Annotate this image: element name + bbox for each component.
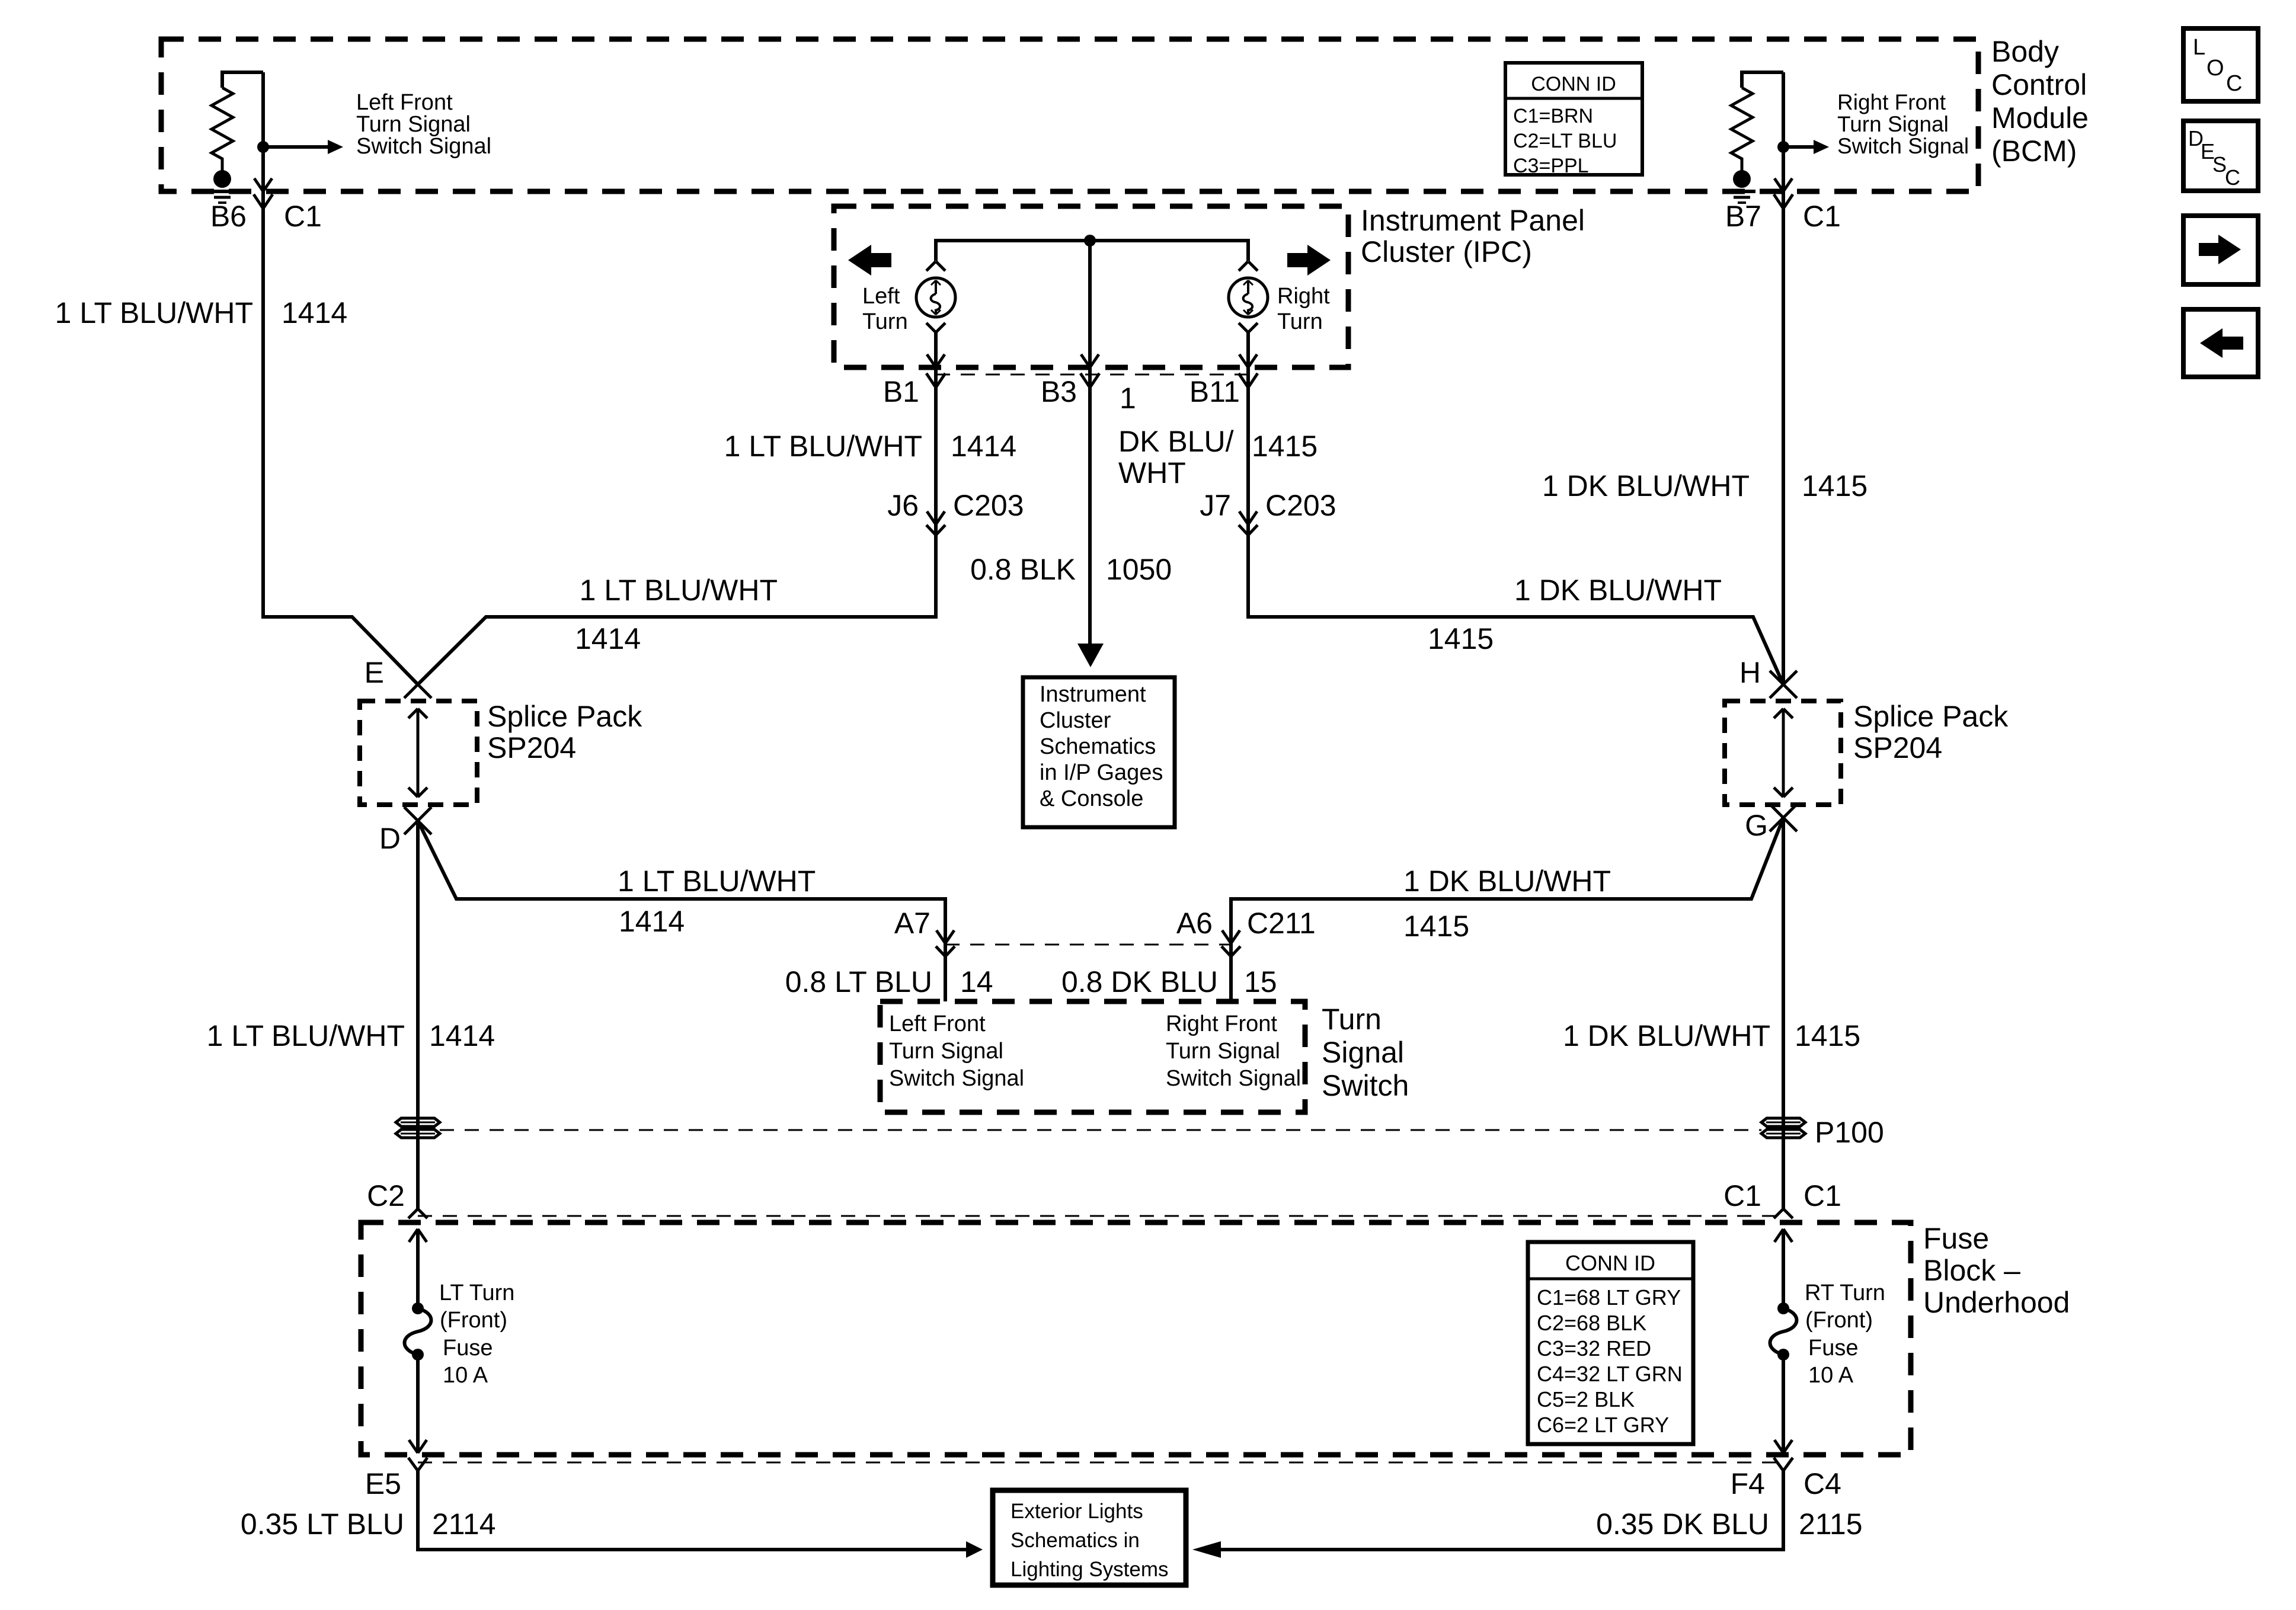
svg-text:14: 14 — [960, 965, 993, 998]
wire B3 to instrument cluster schematic (0.8 BLK 1050) — [1077, 241, 1104, 667]
svg-text:10 A: 10 A — [443, 1363, 488, 1388]
fuse block label — [1923, 1222, 2070, 1319]
svg-text:Right Front: Right Front — [1837, 90, 1946, 114]
fuse block connector table CONN ID — [1528, 1242, 1693, 1444]
label E — [364, 656, 384, 689]
connector C211 dashed line — [945, 944, 1231, 946]
svg-text:C211: C211 — [1247, 907, 1316, 940]
svg-text:2115: 2115 — [1799, 1507, 1863, 1541]
svg-text:in I/P Gages: in I/P Gages — [1040, 760, 1163, 785]
svg-text:G: G — [1745, 809, 1768, 842]
svg-text:1 DK BLU/WHT: 1 DK BLU/WHT — [1514, 574, 1722, 607]
svg-text:1 DK BLU/WHT: 1 DK BLU/WHT — [1563, 1019, 1770, 1052]
label 1 LT BLU/WHT 1414 at B1 — [724, 430, 1017, 463]
node junction right BCM — [1777, 141, 1789, 153]
svg-text:(BCM): (BCM) — [1991, 135, 2077, 168]
wire IPC top rail — [936, 241, 1248, 261]
svg-text:15: 15 — [1244, 965, 1277, 998]
fuse LT labels — [439, 1281, 514, 1388]
label 1 DK BLU/WHT 1415 run — [1428, 574, 1722, 655]
svg-text:Underhood: Underhood — [1923, 1286, 2070, 1319]
label E5 — [365, 1467, 401, 1500]
legend DESC icon — [2183, 121, 2258, 191]
svg-text:0.8 LT BLU: 0.8 LT BLU — [785, 965, 932, 998]
wire B11 to H via J7 — [1248, 332, 1783, 684]
svg-text:CONN ID: CONN ID — [1565, 1251, 1655, 1275]
pin labels B1 B3 B11 — [883, 375, 1240, 415]
label 1 LT BLU/WHT 1414 left wire — [55, 296, 348, 329]
node G splice — [1770, 804, 1797, 831]
label C2 — [367, 1179, 405, 1212]
svg-text:B1: B1 — [883, 375, 919, 408]
pin B11 connector — [1239, 354, 1258, 388]
svg-text:C1=BRN: C1=BRN — [1513, 105, 1593, 127]
label splice pack SP204 left — [487, 700, 642, 764]
svg-text:Switch Signal: Switch Signal — [1837, 134, 1969, 158]
label right front turn signal switch signal — [1837, 90, 1969, 158]
svg-text:2114: 2114 — [432, 1507, 496, 1541]
ground right (BCM) — [1728, 170, 1755, 203]
svg-text:C1: C1 — [1803, 1179, 1841, 1212]
fuse block connector dashed line bottom — [418, 1462, 1783, 1464]
svg-text:0.8 BLK: 0.8 BLK — [970, 553, 1076, 586]
turn signal switch box — [880, 1001, 1305, 1112]
pin B6 connector — [254, 178, 273, 209]
svg-text:Exterior Lights: Exterior Lights — [1011, 1500, 1143, 1523]
label 0.8 BLK 1050 — [970, 553, 1172, 586]
svg-text:C: C — [2226, 71, 2242, 96]
connector A7 C211 — [936, 930, 955, 956]
labels A7 A6 C211 — [894, 907, 1316, 940]
svg-text:Fuse: Fuse — [443, 1336, 493, 1361]
BCM label — [1991, 35, 2089, 168]
svg-text:C2=68 BLK: C2=68 BLK — [1537, 1311, 1646, 1335]
svg-text:LT Turn: LT Turn — [439, 1281, 514, 1305]
wire G to fuse block C1 (1 DK BLU/WHT 1415) — [1782, 818, 1785, 1209]
pin B3 connector — [1080, 354, 1099, 388]
svg-text:Instrument: Instrument — [1040, 682, 1146, 707]
svg-text:Left: Left — [862, 284, 900, 309]
label left turn — [862, 284, 908, 334]
label 1415 below — [1403, 910, 1469, 943]
svg-text:B6: B6 — [210, 200, 247, 233]
label D — [379, 822, 401, 855]
pin C1 C1 connector right — [1774, 1209, 1793, 1218]
wire B6 to E (1 LT BLU/WHT 1414) — [263, 191, 418, 684]
label 1415 at B11 — [1252, 430, 1318, 463]
svg-text:1 DK BLU/WHT: 1 DK BLU/WHT — [1542, 469, 1750, 502]
splice pack left arrow — [408, 709, 427, 797]
splice pack right arrow — [1774, 709, 1793, 797]
svg-text:E: E — [364, 656, 384, 689]
svg-text:C1: C1 — [1723, 1179, 1761, 1212]
pin F4 C4 connector — [1774, 1458, 1793, 1471]
svg-text:Switch Signal: Switch Signal — [356, 134, 491, 159]
label 1 DK BLU/WHT 1415 right wire — [1542, 469, 1868, 502]
svg-text:1414: 1414 — [575, 622, 641, 655]
svg-text:1 DK BLU/WHT: 1 DK BLU/WHT — [1403, 865, 1611, 898]
svg-text:Lighting Systems: Lighting Systems — [1011, 1558, 1169, 1581]
connector A6 C211 — [1221, 930, 1240, 956]
svg-text:F4: F4 — [1731, 1467, 1765, 1500]
labels 0.8 DK BLU 15 — [1061, 965, 1277, 998]
signal arrow right — [1783, 140, 1829, 154]
svg-text:L: L — [2193, 35, 2205, 60]
svg-text:B3: B3 — [1041, 375, 1077, 408]
svg-text:Left Front: Left Front — [356, 90, 453, 115]
splice pack SP204 right box — [1725, 701, 1841, 805]
left turn indicator arrow icon — [848, 245, 891, 276]
svg-text:B11: B11 — [1189, 375, 1240, 408]
svg-text:D: D — [379, 822, 401, 855]
svg-text:1414: 1414 — [429, 1019, 495, 1052]
connector J7 C203 — [1239, 511, 1258, 535]
node junction left BCM — [257, 141, 269, 153]
grommet P100 left — [396, 1118, 440, 1138]
svg-text:H: H — [1739, 656, 1761, 689]
label 1 DK BLU/WHT above — [1403, 865, 1611, 898]
svg-text:Schematics: Schematics — [1040, 734, 1156, 759]
svg-text:Module: Module — [1991, 101, 2089, 135]
svg-text:1: 1 — [1120, 382, 1136, 415]
svg-text:& Console: & Console — [1040, 786, 1143, 811]
label P100 — [1815, 1116, 1884, 1149]
svg-text:Turn Signal: Turn Signal — [1166, 1039, 1280, 1064]
right turn indicator arrow icon — [1287, 245, 1331, 276]
svg-text:A6: A6 — [1176, 907, 1213, 940]
svg-text:0.35 LT BLU: 0.35 LT BLU — [241, 1507, 404, 1541]
pin B6 C1 labels — [210, 200, 322, 233]
svg-text:C203: C203 — [1265, 489, 1336, 522]
fuse RT Turn (Front) 10A — [1770, 1229, 1797, 1453]
svg-text:Switch Signal: Switch Signal — [1166, 1066, 1301, 1091]
wire D to fuse block C2 (1 LT BLU/WHT 1414) — [416, 821, 420, 1209]
fuse LT Turn (Front) 10A — [405, 1229, 431, 1453]
svg-text:C4=32 LT GRN: C4=32 LT GRN — [1537, 1362, 1683, 1386]
BCM connector table CONN ID — [1505, 63, 1642, 177]
svg-text:1 LT BLU/WHT: 1 LT BLU/WHT — [618, 865, 816, 898]
svg-text:C1: C1 — [284, 200, 322, 233]
svg-text:1414: 1414 — [619, 905, 685, 938]
labels C1 C1 — [1723, 1179, 1841, 1212]
svg-text:C4: C4 — [1803, 1467, 1841, 1500]
node E splice — [404, 671, 431, 698]
svg-text:SP204: SP204 — [487, 731, 576, 764]
turn signal switch label — [1322, 1003, 1409, 1102]
label H — [1739, 656, 1761, 689]
legend left-arrow icon — [2183, 309, 2258, 377]
label G — [1745, 809, 1768, 842]
svg-text:10 A: 10 A — [1808, 1363, 1854, 1388]
pin B7 C1 labels — [1725, 200, 1841, 233]
svg-text:O: O — [2207, 56, 2224, 81]
node IPC rail junction — [1084, 235, 1096, 247]
lamp right turn indicator — [1229, 241, 1268, 367]
svg-text:1414: 1414 — [951, 430, 1016, 463]
svg-text:Turn Signal: Turn Signal — [889, 1039, 1003, 1064]
svg-text:Body: Body — [1991, 35, 2059, 68]
svg-text:DK BLU/: DK BLU/ — [1118, 425, 1234, 458]
wire F4 to exterior lights (0.35 DK BLU 2115) — [1192, 1471, 1783, 1558]
label 1 LT BLU/WHT above — [618, 865, 816, 898]
resistor left front turn signal (BCM) — [212, 88, 233, 173]
wire D to A7 (1 LT BLU/WHT 1414) — [418, 821, 945, 1001]
label 1414 below — [619, 905, 685, 938]
svg-text:C3=PPL: C3=PPL — [1513, 155, 1589, 177]
svg-text:1415: 1415 — [1795, 1019, 1860, 1052]
fuse RT labels — [1805, 1281, 1885, 1388]
svg-text:0.8 DK BLU: 0.8 DK BLU — [1061, 965, 1218, 998]
connector J6 C203 — [926, 511, 945, 535]
svg-text:(Front): (Front) — [1805, 1308, 1873, 1333]
labels J7 C203 — [1200, 489, 1336, 522]
labels J6 C203 — [887, 489, 1024, 522]
svg-text:Control: Control — [1991, 68, 2087, 101]
svg-text:Turn: Turn — [1277, 309, 1323, 334]
svg-text:Fuse: Fuse — [1808, 1336, 1858, 1361]
svg-text:C5=2 BLK: C5=2 BLK — [1537, 1387, 1635, 1411]
svg-text:1415: 1415 — [1428, 622, 1494, 655]
IPC connector dashed line — [936, 374, 1248, 376]
svg-text:Right: Right — [1277, 284, 1330, 309]
svg-text:RT Turn: RT Turn — [1805, 1281, 1885, 1305]
svg-text:CONN ID: CONN ID — [1531, 73, 1616, 95]
splice pack SP204 left box — [360, 701, 477, 805]
svg-text:1414: 1414 — [282, 296, 347, 329]
labels 0.35 DK BLU 2115 — [1596, 1507, 1862, 1541]
labels F4 C4 — [1731, 1467, 1841, 1500]
svg-text:Splice Pack: Splice Pack — [1853, 700, 2009, 733]
wire E5 to exterior lights (0.35 LT BLU 2114) — [418, 1471, 983, 1558]
wire B7 to H (1 DK BLU/WHT 1415) — [1782, 191, 1785, 684]
svg-text:SP204: SP204 — [1853, 731, 1942, 764]
pin E5 connector — [408, 1458, 427, 1471]
wire B1 to E via J6 — [418, 332, 936, 684]
svg-text:1 LT BLU/WHT: 1 LT BLU/WHT — [207, 1019, 405, 1052]
svg-text:1 LT BLU/WHT: 1 LT BLU/WHT — [724, 430, 922, 463]
svg-text:0.35 DK BLU: 0.35 DK BLU — [1596, 1507, 1769, 1541]
svg-text:E5: E5 — [365, 1467, 401, 1500]
svg-text:1 LT BLU/WHT: 1 LT BLU/WHT — [55, 296, 253, 329]
svg-text:WHT: WHT — [1118, 456, 1186, 489]
svg-text:Instrument Panel: Instrument Panel — [1361, 204, 1585, 237]
IPC label — [1361, 204, 1585, 268]
svg-text:J6: J6 — [887, 489, 919, 522]
exterior lights schematics reference box — [993, 1490, 1186, 1585]
svg-text:Turn: Turn — [862, 309, 908, 334]
wire resistor to B6 — [222, 72, 263, 191]
legend right-arrow icon — [2183, 216, 2258, 284]
svg-text:Signal: Signal — [1322, 1036, 1404, 1069]
instrument panel cluster IPC box — [834, 206, 1348, 367]
svg-text:C3=32 RED: C3=32 RED — [1537, 1336, 1651, 1361]
svg-text:Turn Signal: Turn Signal — [356, 112, 471, 137]
svg-text:1415: 1415 — [1802, 469, 1868, 502]
fuse block underhood box — [361, 1222, 1911, 1455]
node H splice — [1770, 671, 1797, 698]
svg-text:C6=2 LT GRY: C6=2 LT GRY — [1537, 1413, 1669, 1437]
svg-text:C2: C2 — [367, 1179, 405, 1212]
pin B1 connector — [926, 354, 945, 388]
svg-text:Turn Signal: Turn Signal — [1837, 112, 1949, 136]
svg-text:C: C — [2225, 165, 2240, 190]
svg-text:C1=68 LT GRY: C1=68 LT GRY — [1537, 1285, 1681, 1310]
svg-text:Left Front: Left Front — [889, 1012, 986, 1036]
wire G to A6 (1 DK BLU/WHT 1415) — [1231, 818, 1783, 1001]
svg-text:Switch: Switch — [1322, 1069, 1409, 1102]
node D splice — [404, 807, 431, 834]
body control module BCM box — [161, 39, 1978, 191]
pin C2 connector — [408, 1209, 427, 1218]
legend LOC icon — [2183, 28, 2258, 101]
labels 0.8 LT BLU 14 — [785, 965, 993, 998]
svg-text:Right Front: Right Front — [1166, 1012, 1277, 1036]
svg-text:(Front): (Front) — [440, 1308, 507, 1333]
fuse block connector dashed line top — [418, 1215, 1783, 1217]
labels 1 LT BLU/WHT 1414 lower left — [207, 1019, 495, 1052]
label 1 DK BLU/WHT at B11 — [1118, 425, 1234, 489]
svg-text:Schematics in: Schematics in — [1011, 1529, 1140, 1552]
svg-text:Fuse: Fuse — [1923, 1222, 1989, 1255]
signal arrow left — [263, 140, 343, 154]
svg-text:J7: J7 — [1200, 489, 1231, 522]
svg-text:1415: 1415 — [1403, 910, 1469, 943]
TSS text left — [889, 1012, 1024, 1091]
svg-text:Switch Signal: Switch Signal — [889, 1066, 1024, 1091]
svg-text:A7: A7 — [894, 907, 930, 940]
label left front turn signal switch signal — [356, 90, 491, 159]
labels 0.35 LT BLU 2114 — [241, 1507, 496, 1541]
svg-text:Turn: Turn — [1322, 1003, 1382, 1036]
label right turn — [1277, 284, 1330, 334]
svg-text:C203: C203 — [953, 489, 1024, 522]
TSS text right — [1166, 1012, 1301, 1091]
wire resistor to B7 — [1742, 72, 1783, 191]
grommet P100 right — [1761, 1118, 1805, 1138]
svg-text:Block –: Block – — [1923, 1254, 2020, 1287]
ground left (BCM) — [209, 170, 236, 203]
svg-text:B7: B7 — [1725, 200, 1761, 233]
lamp left turn indicator — [916, 241, 955, 367]
resistor right front turn signal (BCM) — [1731, 88, 1753, 173]
label 1 LT BLU/WHT 1414 run — [575, 574, 778, 655]
svg-text:Cluster (IPC): Cluster (IPC) — [1361, 235, 1532, 268]
svg-text:C1: C1 — [1803, 200, 1841, 233]
pin B7 connector — [1774, 178, 1793, 209]
svg-text:1415: 1415 — [1252, 430, 1318, 463]
svg-text:P100: P100 — [1815, 1116, 1884, 1149]
grommet P100 dashed line — [440, 1129, 1761, 1131]
svg-text:1050: 1050 — [1106, 553, 1172, 586]
svg-text:C2=LT BLU: C2=LT BLU — [1513, 130, 1617, 152]
labels 1 DK BLU/WHT 1415 lower right — [1563, 1019, 1860, 1052]
svg-text:Cluster: Cluster — [1040, 708, 1111, 733]
svg-text:1 LT BLU/WHT: 1 LT BLU/WHT — [580, 574, 778, 607]
svg-text:Splice Pack: Splice Pack — [487, 700, 642, 733]
instrument cluster schematics reference box — [1023, 677, 1175, 827]
label splice pack SP204 right — [1853, 700, 2009, 764]
